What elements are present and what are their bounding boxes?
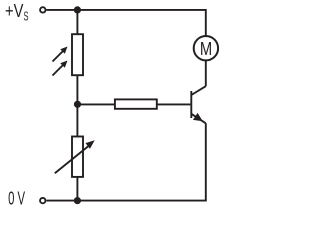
wire: motor bottom to collector bend — [205, 61, 207, 87]
wire: +Vs supply rail (top, to motor top) — [46, 10, 205, 37]
wire: emitter bend down to 0V rail — [205, 123, 207, 200]
terminal +Vs — [40, 7, 45, 12]
svg-text:+V: +V — [5, 1, 23, 21]
variable resistor — [55, 137, 95, 177]
terminal 0V — [40, 198, 45, 203]
wire: LDR top lead — [76, 10, 78, 35]
svg-text:0 V: 0 V — [8, 189, 25, 209]
wire: LDR bottom to divider midpoint — [76, 76, 78, 105]
LDR (light dependent resistor) — [53, 34, 84, 75]
node: bottom junction — [74, 197, 81, 204]
wire: 0V rail (bottom) — [46, 200, 206, 202]
node: top junction — [74, 6, 81, 13]
wire: variable resistor bottom lead — [76, 177, 78, 201]
motor M — [194, 36, 218, 60]
svg-text:S: S — [24, 9, 29, 23]
wire: divider midpoint to variable resistor top — [76, 104, 78, 137]
label +Vs — [5, 1, 29, 24]
resistor (base resistor) — [115, 99, 157, 108]
wire: midpoint to base resistor — [77, 103, 115, 105]
transistor Q1 (npn) — [191, 86, 206, 123]
wire: base resistor to transistor base — [157, 103, 190, 105]
node: divider midpoint junction — [74, 101, 81, 108]
svg-text:M: M — [200, 38, 212, 59]
